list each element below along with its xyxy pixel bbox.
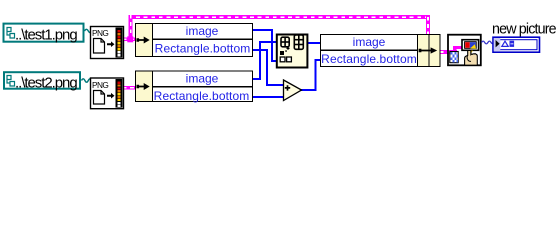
wire path squiggle 1: [85, 29, 93, 32]
indicator terminal new picture: [493, 37, 540, 52]
wire cluster pink top horizontal: [129, 15, 431, 19]
draw flattened pixmap node: [448, 35, 481, 66]
PNG read node 1: [91, 27, 124, 59]
wire blue unbundle1.Rectangle.bottom to add input1: [253, 49, 284, 86]
svg-text:Rectangle.bottom: Rectangle.bottom: [155, 42, 251, 56]
svg-text:Rectangle.bottom: Rectangle.bottom: [154, 89, 250, 103]
svg-text:image: image: [186, 24, 219, 38]
svg-text:image: image: [186, 71, 219, 85]
wire blue unbundle2.Rectangle.bottom to add input2: [253, 96, 284, 98]
wire cluster pink bundle to draw node: [440, 50, 448, 54]
wire cluster pink PNG1 to unbundle1: [123, 38, 136, 42]
checkerboard pixmap glyph: [450, 52, 458, 63]
add function: [284, 80, 302, 101]
wire blue unbundle2.image to icon input1: [253, 41, 278, 80]
svg-text:..\test1.png: ..\test1.png: [15, 26, 77, 43]
unbundle U2 input arrow: [137, 83, 150, 90]
svg-text:image: image: [353, 35, 386, 49]
wire picture squiggle: [482, 41, 493, 44]
wire blue unbundle1.image to icon input2: [253, 29, 278, 62]
wire cluster pink PNG2 to unbundle2: [123, 86, 136, 90]
wire path squiggle 2: [82, 79, 92, 82]
bundle B1 arrow: [419, 47, 438, 53]
bundle by name B1: [320, 34, 441, 67]
path constant P2 ..\test2.png: [4, 72, 80, 91]
unbundle by name U1: [135, 23, 253, 57]
svg-text:..\test2.png: ..\test2.png: [15, 74, 77, 91]
subVI icon stack-images: [277, 35, 308, 68]
PNG read node 2: [91, 78, 124, 109]
wire blue add output to bundle Rectangle.bottom: [301, 59, 321, 91]
monitor glyph: [462, 40, 479, 53]
svg-text:new picture: new picture: [492, 21, 557, 37]
unbundle by name U2: [135, 71, 253, 103]
svg-text:PNG: PNG: [92, 28, 108, 38]
svg-text:Rectangle.bottom: Rectangle.bottom: [321, 52, 417, 66]
hand glyph: [465, 50, 478, 65]
wire cluster pink vertical left (PNG1 branch up): [129, 15, 133, 41]
wire blue icon output to bundle image: [307, 42, 321, 44]
junction pink: [127, 36, 133, 42]
svg-text:PNG: PNG: [92, 80, 108, 90]
wire cluster pink vertical right (down into bundle): [426, 15, 430, 35]
unbundle U1 input arrow: [137, 37, 150, 44]
path constant P1 ..\test1.png: [4, 24, 84, 44]
